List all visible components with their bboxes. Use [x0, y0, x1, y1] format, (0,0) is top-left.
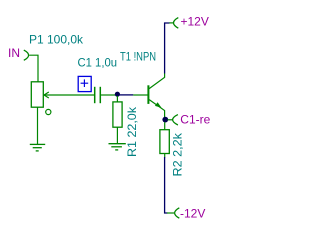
transistor T1	[133, 74, 164, 118]
wire +12V (navy)	[165, 23, 170, 74]
wire to -12V terminal	[167, 212, 174, 214]
resistor R2	[160, 130, 169, 154]
wire -12V (navy)	[165, 157, 168, 213]
label T1 !NPN	[120, 50, 156, 64]
label C1 1,0u	[78, 55, 118, 69]
power terminal +12V	[174, 18, 179, 29]
wire R1 bottom to ground	[116, 127, 118, 143]
svg-text:T1 !NPN: T1 !NPN	[120, 50, 156, 64]
svg-text:C1 1,0u: C1 1,0u	[78, 55, 118, 69]
wire junction down to R2	[164, 122, 166, 130]
label R1 22,0k	[125, 106, 139, 157]
power terminal -12V	[175, 208, 180, 218]
terminal IN	[24, 50, 29, 60]
wire C1 to junction	[101, 94, 116, 96]
svg-text:R2 2,2k: R2 2,2k	[170, 132, 184, 177]
ground under P1	[30, 144, 45, 151]
label P1 100,0k	[29, 32, 84, 46]
resistor R1	[113, 102, 122, 127]
svg-text:P1 100,0k: P1 100,0k	[29, 32, 84, 46]
node C1-re terminal	[173, 115, 178, 125]
label IN	[8, 46, 20, 60]
potentiometer P1	[31, 82, 51, 115]
svg-text:+12V: +12V	[181, 15, 209, 29]
svg-text:IN: IN	[8, 46, 20, 60]
wire junction down to R1	[116, 96, 118, 102]
label +12V	[181, 15, 209, 29]
junction at emitter	[162, 117, 168, 123]
wire P1 bottom to ground	[37, 107, 39, 144]
wire IN to P1 top	[29, 55, 38, 82]
label -12V	[180, 206, 205, 220]
wire to +12V terminal	[169, 22, 173, 24]
label R2 2,2k	[170, 132, 184, 177]
svg-text:R1 22,0k: R1 22,0k	[125, 106, 139, 157]
label C1-re	[180, 112, 210, 126]
wire P1 wiper to C1	[44, 94, 94, 96]
wire R2 bottom stub	[164, 154, 166, 158]
wire junction to T1 base (navy)	[120, 94, 134, 96]
ground under R1	[109, 144, 126, 150]
svg-text:C1-re: C1-re	[180, 112, 210, 126]
junction at T1 base	[115, 92, 120, 97]
capacitor C1	[95, 87, 101, 103]
wire junction to C1-re terminal	[168, 119, 173, 121]
svg-text:-12V: -12V	[180, 206, 205, 220]
polarity marker + of C1	[78, 76, 91, 91]
